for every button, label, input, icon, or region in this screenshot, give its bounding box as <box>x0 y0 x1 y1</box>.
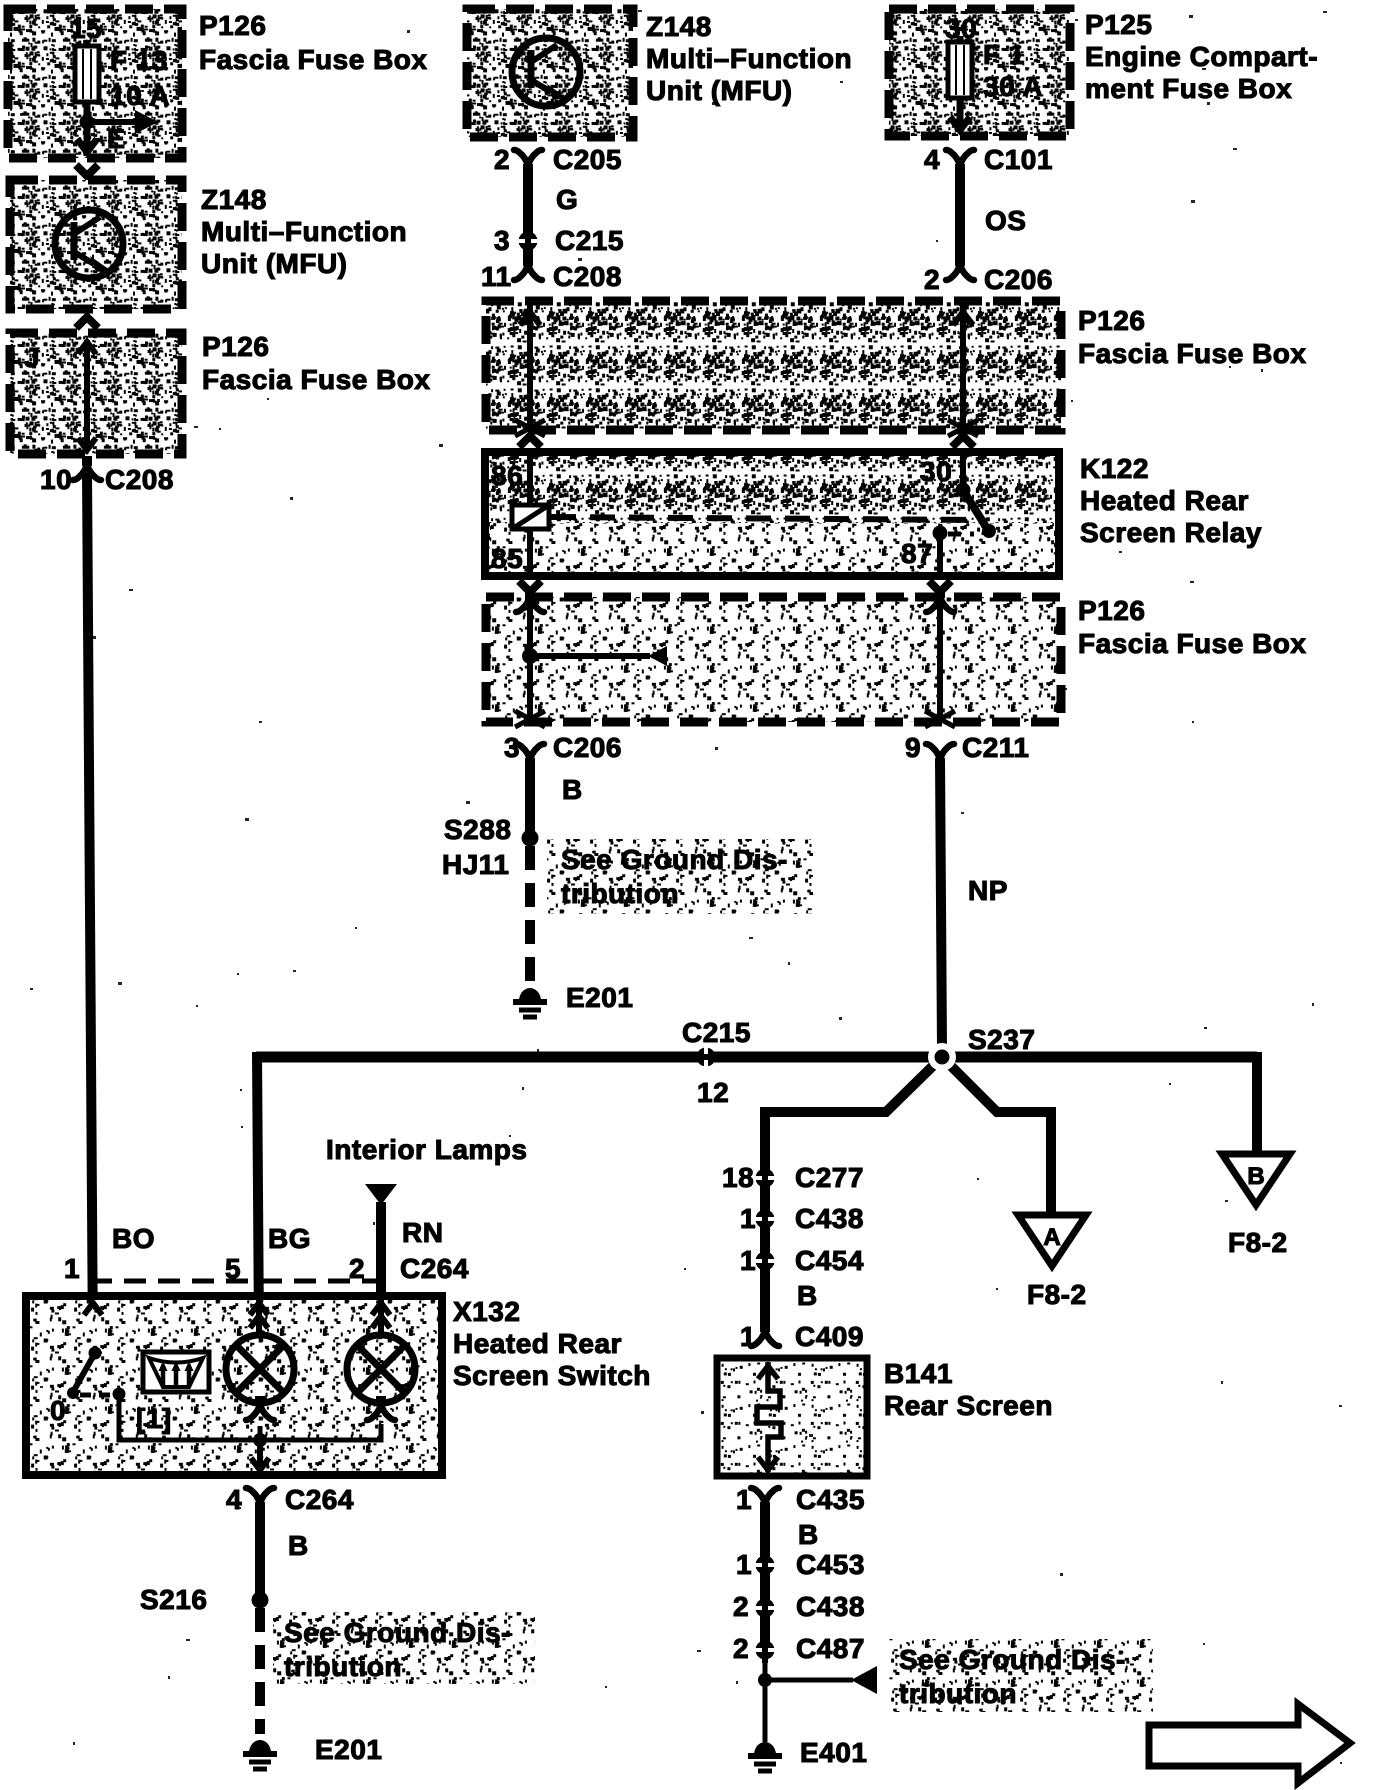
svg-text:B: B <box>1247 1163 1264 1190</box>
switch blade <box>73 1353 95 1392</box>
svg-text:18: 18 <box>722 1162 754 1193</box>
svg-text:G: G <box>556 184 578 215</box>
svg-text:Z148: Z148 <box>646 11 712 42</box>
svg-text:2: 2 <box>733 1633 749 1664</box>
svg-text:30: 30 <box>920 456 952 487</box>
svg-text:1: 1 <box>740 1245 756 1276</box>
svg-text:C264: C264 <box>400 1253 469 1284</box>
switch lamp 2 bottom fork <box>367 1396 395 1420</box>
svg-text:0: 0 <box>50 1395 66 1426</box>
svg-text:C487: C487 <box>796 1633 865 1664</box>
svg-text:Screen Relay: Screen Relay <box>1080 517 1262 548</box>
next page arrow <box>1149 1704 1350 1783</box>
svg-text:P126: P126 <box>199 10 266 41</box>
svg-text:C438: C438 <box>795 1203 864 1234</box>
switch output junction dot <box>253 1433 267 1447</box>
connector C438 pin 1 inline <box>752 1206 778 1232</box>
svg-text:BO: BO <box>112 1223 155 1254</box>
switch lamp 2 <box>347 1335 415 1403</box>
svg-text:Fascia Fuse Box: Fascia Fuse Box <box>202 364 430 395</box>
connector C435 pin 1 <box>751 1488 779 1512</box>
svg-text:3: 3 <box>494 225 510 256</box>
see ground distribution note 1 <box>547 839 813 914</box>
svg-text:B: B <box>798 1519 819 1550</box>
svg-text:12: 12 <box>697 1077 729 1108</box>
heated rear screen switch X132 box <box>26 1296 442 1475</box>
svg-text:Unit (MFU): Unit (MFU) <box>646 75 793 106</box>
svg-text:Z148: Z148 <box>201 184 267 215</box>
fuse box P125 (dashed) <box>889 9 1070 136</box>
connector C277 pin 18 inline <box>752 1165 778 1191</box>
svg-text:1: 1 <box>736 1549 752 1580</box>
svg-text:C215: C215 <box>555 225 624 256</box>
fork into box left <box>516 588 544 612</box>
arrowhead up left P126 upper <box>520 312 540 325</box>
wire BG from bus to switch <box>257 1052 259 1334</box>
svg-text:C101: C101 <box>984 144 1053 175</box>
svg-text:Heated Rear: Heated Rear <box>453 1328 622 1359</box>
svg-text:10: 10 <box>40 464 72 495</box>
svg-text:15: 15 <box>70 13 102 44</box>
svg-text:RN: RN <box>402 1217 443 1248</box>
connector C453 pin 1 inline <box>752 1552 778 1578</box>
svg-text:2: 2 <box>494 144 510 175</box>
svg-text:tribution: tribution <box>561 878 679 909</box>
svg-text:C206: C206 <box>553 732 622 763</box>
clock icon Z148 mid <box>512 38 580 106</box>
svg-text:C211: C211 <box>962 732 1029 763</box>
connector C211 pin 9 <box>926 744 954 768</box>
arrowhead up right P126 upper <box>953 312 973 325</box>
svg-text:4: 4 <box>226 1484 242 1515</box>
wire OS segment <box>955 166 965 266</box>
svg-text:P126: P126 <box>202 331 269 362</box>
see ground distribution note 3 <box>888 1639 1153 1712</box>
svg-text:OS: OS <box>985 205 1026 236</box>
junction X left at P126 bottom edge <box>515 420 545 436</box>
switch contact 1 dot <box>113 1388 126 1401</box>
svg-text:C453: C453 <box>796 1549 865 1580</box>
wire BO from C208 to switch pin 1 <box>87 473 93 1352</box>
wire below C215 <box>523 246 533 266</box>
off-page connector B F8-2 <box>1222 1154 1290 1205</box>
svg-text:[1]: [1] <box>136 1403 172 1434</box>
svg-text:Interior Lamps: Interior Lamps <box>326 1134 527 1165</box>
wire NP segment <box>940 760 942 1048</box>
svg-text:1: 1 <box>740 1321 756 1352</box>
chevron above relay right <box>952 436 974 447</box>
multi-function unit Z148 left (dashed) <box>10 180 182 309</box>
rear screen element <box>757 1362 781 1472</box>
relay pin 87 dash <box>948 532 974 537</box>
wire left inside P126 upper <box>527 301 533 430</box>
fuse box P126 upper wide (dashed) <box>486 301 1061 430</box>
chevron above relay left <box>519 436 541 447</box>
svg-text:11: 11 <box>481 261 512 292</box>
connector C409 pin 1 <box>751 1322 779 1346</box>
dashed ground wire S216-E201 <box>255 1608 265 1734</box>
fuse box P126 lower wide (dashed) <box>486 597 1061 722</box>
connector C487 pin 2 inline <box>752 1637 778 1663</box>
svg-text:Multi–Function: Multi–Function <box>201 216 407 247</box>
switch lamp 1 <box>226 1335 294 1403</box>
fuse F13 <box>75 40 99 124</box>
off-page connector A F8-2 <box>1018 1215 1086 1266</box>
svg-text:ment Fuse Box: ment Fuse Box <box>1085 73 1292 104</box>
svg-text:Fascia Fuse Box: Fascia Fuse Box <box>1078 338 1306 369</box>
connector C101 pin 4 <box>946 150 974 174</box>
svg-text:E: E <box>107 124 126 154</box>
chevron link P126 to MFU <box>76 165 98 176</box>
wire fuse F13 feed <box>84 40 91 124</box>
svg-text:K122: K122 <box>1080 453 1149 484</box>
svg-text:2: 2 <box>733 1591 749 1622</box>
junction dot P126 lower <box>522 648 538 664</box>
connector C206 pin 3 <box>516 744 544 768</box>
wire arrow E <box>87 110 158 134</box>
svg-text:S216: S216 <box>140 1584 207 1615</box>
svg-text:See Ground Dis-: See Ground Dis- <box>284 1617 511 1648</box>
svg-text:Heated Rear: Heated Rear <box>1080 485 1249 516</box>
svg-text:F 13: F 13 <box>110 45 168 76</box>
relay coil dashed link <box>551 517 980 520</box>
interior lamps feed arrow <box>365 1184 397 1205</box>
svg-text:4: 4 <box>924 144 940 175</box>
svg-text:X132: X132 <box>453 1296 520 1327</box>
svg-text:3: 3 <box>504 732 520 763</box>
connector C208 pin 10 <box>73 456 101 480</box>
svg-text:C208: C208 <box>105 464 174 495</box>
fork into box right <box>926 588 954 612</box>
wire through J box <box>84 340 90 450</box>
svg-text:85: 85 <box>491 543 523 574</box>
arrowhead down fuse F1 output <box>950 117 970 130</box>
wire fuse output down <box>84 122 91 156</box>
svg-text:Rear Screen: Rear Screen <box>884 1390 1053 1421</box>
arrowhead up in J box <box>78 342 96 354</box>
svg-text:Engine Compart-: Engine Compart- <box>1085 41 1318 72</box>
relay coil <box>512 505 549 529</box>
svg-text:A: A <box>1043 1224 1060 1251</box>
connector C215 pin 12 inline <box>693 1044 719 1070</box>
svg-text:Fascia Fuse Box: Fascia Fuse Box <box>199 44 427 75</box>
arrowhead down in J box <box>78 438 96 450</box>
wire C277-C438 <box>760 1183 770 1214</box>
svg-text:C206: C206 <box>984 264 1053 295</box>
wire right inside P126 upper <box>960 301 966 430</box>
svg-text:1: 1 <box>64 1253 80 1284</box>
fuse box P126 J (dashed) <box>10 333 182 454</box>
rear screen B141 box <box>717 1358 867 1476</box>
ground E401 <box>748 1742 782 1771</box>
splice S288 <box>522 830 539 847</box>
svg-text:C215: C215 <box>682 1017 751 1048</box>
svg-text:See Ground Dis-: See Ground Dis- <box>899 1644 1126 1675</box>
svg-text:See Ground Dis-: See Ground Dis- <box>561 844 788 875</box>
wire branch to C277 chain <box>765 1057 942 1175</box>
chevron below relay right <box>929 581 951 592</box>
splice S216 <box>252 1592 269 1609</box>
relay coil wire 86-85 <box>527 452 533 576</box>
svg-text:NP: NP <box>968 875 1008 906</box>
svg-text:2: 2 <box>924 264 940 295</box>
bus wire horizontal <box>256 1052 1257 1063</box>
svg-text:F8-2: F8-2 <box>1228 1227 1288 1258</box>
connector C205 pin 2 <box>514 150 542 174</box>
svg-text:Multi–Function: Multi–Function <box>646 43 852 74</box>
svg-text:S288: S288 <box>444 814 511 845</box>
svg-text:B: B <box>288 1530 309 1561</box>
relay contact pivot dot <box>956 483 971 498</box>
wire G segment <box>523 166 533 234</box>
svg-text:C409: C409 <box>795 1321 864 1352</box>
clock icon Z148 left <box>55 210 123 278</box>
junction X right at P126 lower bottom <box>925 711 955 727</box>
wire spur with arrow <box>530 653 650 659</box>
wire B segment to C409 <box>760 1266 770 1332</box>
fuse F1 <box>948 36 972 128</box>
chevron below relay left <box>519 581 541 592</box>
svg-text:Unit (MFU): Unit (MFU) <box>201 248 348 279</box>
relay pin 87 wire <box>937 533 943 576</box>
wire C453-C438 <box>760 1570 770 1603</box>
svg-text:E201: E201 <box>315 1734 382 1765</box>
wire B segment below B141 <box>760 1504 770 1560</box>
svg-text:F8-2: F8-2 <box>1027 1279 1087 1310</box>
wire C487 to ground node <box>763 1655 768 1742</box>
svg-text:tribution: tribution <box>284 1651 402 1682</box>
svg-text:C208: C208 <box>553 261 622 292</box>
switch link dash <box>80 1393 112 1398</box>
wire spur see-ground <box>765 1678 853 1683</box>
svg-text:1: 1 <box>740 1203 756 1234</box>
wire C438-C454 <box>760 1224 770 1256</box>
junction X left at P126 lower bottom <box>515 711 545 727</box>
switch lamp 2 feed <box>378 1300 384 1335</box>
svg-text:B141: B141 <box>884 1358 953 1389</box>
see ground distribution note 2 <box>273 1612 535 1684</box>
svg-text:C438: C438 <box>796 1591 865 1622</box>
svg-text:P126: P126 <box>1078 305 1145 336</box>
connector C215 pin 3 inline <box>515 228 541 254</box>
wire B to S216 <box>255 1504 265 1600</box>
switch lamp 1 bottom fork <box>246 1396 274 1420</box>
relay contact blade <box>963 490 988 530</box>
svg-text:1: 1 <box>736 1484 752 1515</box>
heated screen icon <box>143 1352 209 1392</box>
junction X right at P126 bottom edge <box>948 420 978 436</box>
chevron link MFU to P126-J <box>76 317 98 328</box>
svg-text:E201: E201 <box>566 982 633 1013</box>
svg-text:9: 9 <box>905 732 921 763</box>
svg-text:B: B <box>562 774 583 805</box>
wire to triangle B <box>1252 1052 1262 1158</box>
arrowhead down at box edge <box>77 139 97 152</box>
svg-text:tribution: tribution <box>899 1678 1017 1709</box>
svg-text:BG: BG <box>268 1223 311 1254</box>
connector C264 pin 4 <box>246 1488 274 1512</box>
switch contact wire to lamps <box>119 1394 381 1440</box>
relay pin 30 wire <box>960 452 966 488</box>
svg-text:Fascia Fuse Box: Fascia Fuse Box <box>1078 628 1306 659</box>
switch pin1 arrowhead <box>84 1303 102 1315</box>
svg-text:30 A: 30 A <box>983 71 1043 102</box>
connector C208 pin 11 <box>514 256 542 280</box>
svg-text:F 1: F 1 <box>983 39 1025 70</box>
wire right inside P126 lower <box>937 597 943 722</box>
svg-text:P126: P126 <box>1078 595 1145 626</box>
svg-text:87: 87 <box>901 538 933 569</box>
multi-function unit Z148 mid (dashed) <box>467 9 633 137</box>
wire B segment to S288 <box>525 760 535 838</box>
svg-text:C205: C205 <box>553 144 622 175</box>
fuse box P126 top-left (dashed) <box>8 9 182 158</box>
switch lamp 1 feed <box>256 1300 262 1335</box>
wire left inside P126 lower <box>527 597 533 722</box>
splice S237 <box>928 1043 956 1071</box>
svg-text:S237: S237 <box>968 1024 1035 1055</box>
junction dot in P126 <box>80 115 95 130</box>
connector C206 pin 2 top <box>946 256 974 280</box>
svg-text:C264: C264 <box>285 1484 354 1515</box>
switch common dot <box>89 1347 102 1360</box>
svg-text:HJ11: HJ11 <box>442 849 509 880</box>
svg-text:C435: C435 <box>796 1484 865 1515</box>
svg-text:E401: E401 <box>800 1737 867 1768</box>
svg-text:B: B <box>797 1280 818 1311</box>
svg-text:C454: C454 <box>795 1245 864 1276</box>
svg-text:Screen Switch: Screen Switch <box>453 1360 651 1391</box>
ground E201 mid <box>513 988 547 1017</box>
wire RN <box>376 1202 386 1334</box>
wire branch to A <box>942 1057 1051 1218</box>
ground E201 switch <box>243 1740 277 1769</box>
wire C438-C487 <box>760 1613 770 1645</box>
svg-text:10 A: 10 A <box>110 80 170 111</box>
svg-text:C277: C277 <box>795 1162 864 1193</box>
ground node junction dot <box>758 1673 772 1687</box>
connector C454 pin 1 inline <box>752 1248 778 1274</box>
dashed ground wire S288-E201 <box>525 846 535 982</box>
svg-text:P125: P125 <box>1085 9 1152 40</box>
dashed connector line C264 <box>90 1279 387 1284</box>
connector C438 pin 2 inline <box>752 1595 778 1621</box>
relay K122 box <box>485 452 1059 576</box>
relay pin 87 dot <box>933 526 948 541</box>
svg-text:J: J <box>24 342 40 373</box>
switch output wire <box>257 1440 263 1474</box>
